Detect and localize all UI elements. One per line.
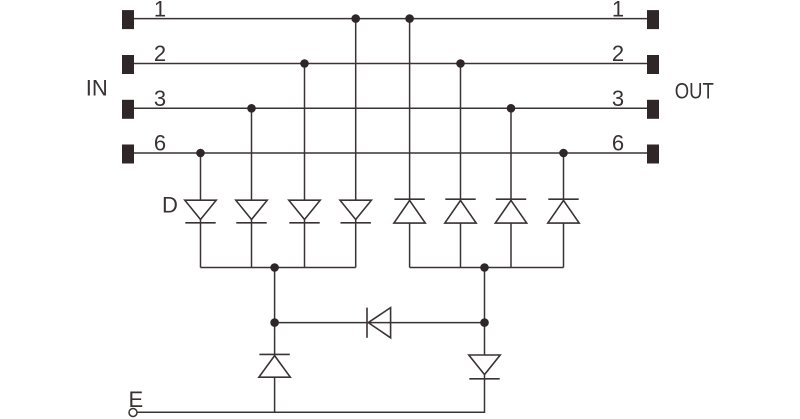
svg-text:D: D [162, 193, 178, 218]
diode D6 [445, 199, 476, 223]
diode D8 [548, 199, 579, 223]
node junction line1/D4 [351, 14, 360, 23]
svg-text:6: 6 [154, 131, 166, 156]
svg-text:1: 1 [154, 0, 166, 21]
diode D7 [495, 199, 526, 223]
svg-text:OUT: OUT [675, 78, 714, 103]
diode D2 [236, 200, 267, 223]
wire line 2 (IN2 to OUT2) [134, 63, 647, 65]
svg-text:2: 2 [612, 41, 624, 66]
node junction line2/D6 [456, 59, 465, 68]
terminal pad IN line 3 [122, 100, 134, 119]
wire branch D5 (line 1 to right bus) [409, 19, 411, 268]
wire branch D7 (line 3 to right bus) [510, 108, 512, 267]
svg-text:IN: IN [86, 76, 108, 101]
diode D4 [340, 200, 371, 223]
diode D10 (bottom left, pointing up) [259, 354, 290, 377]
node junction line6/D1 [196, 149, 205, 158]
svg-text:3: 3 [154, 86, 166, 111]
diode D9 (mid, pointing left) [367, 308, 391, 338]
node junction mid wire right [480, 318, 489, 327]
wire branch D6 (line 2 to right bus) [460, 64, 462, 268]
terminal pad OUT line 1 [647, 10, 659, 29]
wire left bus [201, 267, 356, 269]
node junction line1/D5 [405, 14, 414, 23]
diode D5 [394, 199, 425, 223]
wire left stub (left bus to mid wire) [274, 268, 276, 323]
terminal pad OUT line 2 [647, 55, 659, 74]
wire branch D4 (line 1 to left bus) [355, 19, 357, 268]
wire right bus [410, 267, 564, 269]
node junction mid wire left [270, 318, 279, 327]
terminal pad IN line 2 [122, 55, 134, 74]
node junction right bus [480, 263, 489, 272]
earth terminal E (circle) [129, 409, 137, 417]
svg-text:E: E [129, 387, 144, 412]
wire line 1 (IN1 to OUT1) [134, 18, 647, 20]
svg-text:3: 3 [612, 86, 624, 111]
node junction line6/D8 [559, 149, 568, 158]
wire line 3 (IN3 to OUT3) [134, 107, 647, 109]
wire branch D2 (line 3 to left bus) [251, 108, 253, 267]
wire mid (through diode D9) [275, 322, 485, 324]
wire branch D1 (line 6 to left bus) [200, 153, 202, 268]
wire right stub (right bus to mid wire) [484, 268, 486, 323]
diode D1 [185, 200, 216, 223]
svg-text:6: 6 [612, 131, 624, 156]
wire branch D8 (line 6 to right bus) [563, 153, 565, 268]
terminal pad IN line 6 [122, 145, 134, 164]
terminal pad IN line 1 [122, 10, 134, 29]
terminal pad OUT line 3 [647, 100, 659, 119]
node junction line3/D2 [247, 104, 256, 113]
node junction line3/D7 [507, 104, 516, 113]
diode D11 (bottom right, pointing down) [469, 355, 500, 379]
svg-text:2: 2 [154, 41, 166, 66]
svg-text:1: 1 [612, 0, 624, 21]
node junction line2/D3 [300, 59, 309, 68]
wire right lower branch with corner (mid wire to bottom wire) [137, 323, 484, 413]
wire branch D3 (line 2 to left bus) [304, 64, 306, 268]
wire left lower branch (mid wire to bottom wire) [274, 323, 276, 413]
wire line 6 (IN6 to OUT6) [134, 152, 647, 154]
diode D3 [289, 200, 320, 223]
terminal pad OUT line 6 [647, 145, 659, 164]
node junction left bus [270, 263, 279, 272]
